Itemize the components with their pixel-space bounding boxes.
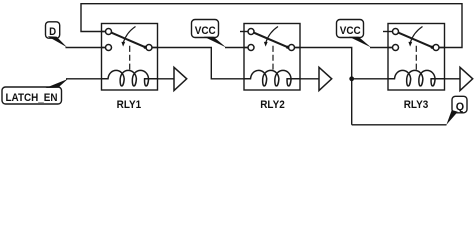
buffer driver for RLY2: [300, 67, 332, 90]
actuation arrow: [266, 27, 278, 43]
body: [102, 24, 158, 91]
svg-text:LATCH_EN: LATCH_EN: [6, 92, 58, 104]
common contact: [433, 45, 439, 51]
wire: D to RLY1 NC contact: [66, 47, 106, 49]
switch arm: [398, 33, 432, 48]
coil: [244, 70, 300, 86]
body: [388, 24, 445, 91]
contact NO: [106, 29, 112, 35]
buffer driver for RLY3: [445, 67, 473, 90]
wire: node to Q output: [352, 124, 447, 126]
wire: VCC to RLY2 NC contact: [225, 47, 248, 49]
switch arm: [111, 33, 145, 48]
svg-text:VCC: VCC: [195, 25, 216, 37]
net flag Q: [446, 96, 467, 124]
net flag VCC (RLY3): [337, 20, 372, 48]
svg-text:D: D: [49, 26, 56, 38]
contact NC: [106, 45, 112, 51]
actuation arrow: [123, 27, 135, 43]
wire: feedback rail from RLY3 common to RLY1 NO contact: [81, 4, 462, 48]
svg-text:RLY2: RLY2: [260, 99, 285, 111]
wire: LATCH_EN to RLY1 coil: [66, 78, 102, 80]
wire: RLY1 common to RLY2 coil: [152, 48, 244, 79]
common contact: [146, 45, 152, 51]
svg-text:Q: Q: [456, 101, 465, 113]
wire: RLY2 common down to node: [295, 48, 352, 125]
contact NC: [393, 45, 399, 51]
junction node: [349, 76, 354, 81]
actuation dashed link: [415, 46, 417, 70]
switch arm: [254, 33, 288, 48]
coil: [388, 70, 445, 86]
coil: [102, 70, 158, 86]
svg-text:RLY1: RLY1: [117, 99, 142, 111]
net flag D: [46, 22, 68, 48]
net flag LATCH_EN: [2, 79, 68, 104]
svg-text:RLY3: RLY3: [404, 99, 429, 111]
buffer driver for RLY1: [158, 67, 187, 90]
actuation dashed link: [129, 46, 131, 70]
common contact: [289, 45, 295, 51]
relay RLY3: [383, 24, 445, 91]
actuation dashed link: [272, 46, 274, 70]
contact NO (stub): [393, 29, 399, 35]
contact NO (stub): [248, 29, 254, 35]
wire: VCC to RLY3 NC contact: [370, 47, 392, 49]
relay RLY2: [240, 24, 300, 91]
svg-text:VCC: VCC: [340, 25, 361, 37]
wire: node to RLY3 coil: [352, 78, 388, 80]
relay RLY1: [102, 24, 158, 91]
body: [244, 24, 300, 91]
actuation arrow: [410, 27, 422, 43]
net flag VCC (RLY2): [192, 20, 227, 48]
contact NC: [248, 45, 254, 51]
